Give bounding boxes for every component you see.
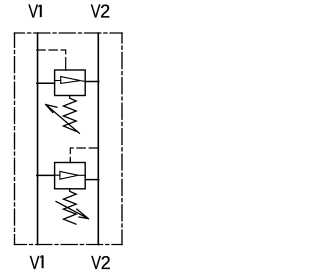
wire V1 to RV1 inlet (37, 82, 55, 84)
label V2 (top) (91, 2, 111, 23)
wire RV2 inlet to V2 (85, 179, 99, 181)
enclosure (dash-dot subplate boundary) (15, 33, 123, 245)
label V2 (bottom) (91, 253, 110, 274)
svg-text:V: V (91, 2, 101, 22)
wire V1 to RV2 outlet (37, 174, 55, 176)
node V2 (right main line) (97, 33, 99, 245)
svg-text:2: 2 (100, 2, 110, 22)
svg-text:V: V (28, 2, 38, 22)
RV1 spring (63, 96, 76, 132)
relief valve RV2 pilot line (dashed, from V2) (70, 148, 99, 163)
RV2 flow arrow (55, 171, 85, 179)
svg-text:V: V (30, 253, 40, 273)
wire RV1 outlet to V2 (85, 81, 99, 83)
svg-text:2: 2 (101, 253, 111, 273)
node V1 (left main line) (37, 33, 39, 245)
relief valve RV1 pilot line (dashed, from V1) (37, 50, 66, 70)
relief valve RV2 body (55, 163, 86, 189)
RV2 adjustment arrow (56, 202, 88, 219)
RV1 flow arrow (55, 77, 85, 84)
RV2 spring (63, 189, 76, 224)
RV1 adjustment arrow (46, 105, 80, 134)
relief valve RV1 body (55, 70, 86, 96)
label V1 (bottom) (30, 253, 43, 273)
svg-text:V: V (91, 253, 101, 273)
label V1 (top) (28, 2, 40, 22)
